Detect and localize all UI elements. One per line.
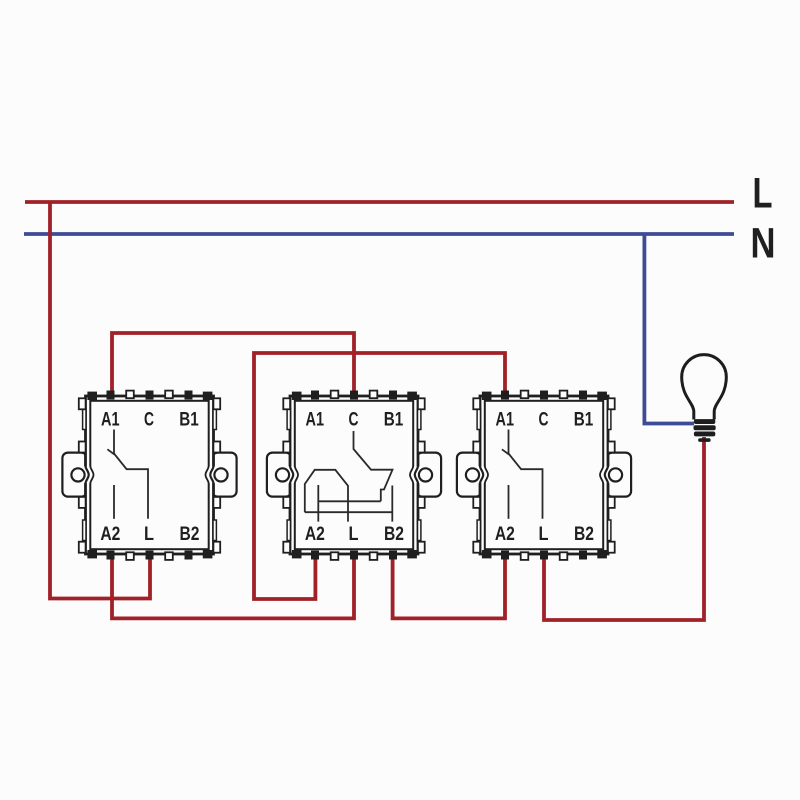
svg-text:L: L (753, 170, 773, 218)
svg-text:N: N (751, 220, 776, 268)
